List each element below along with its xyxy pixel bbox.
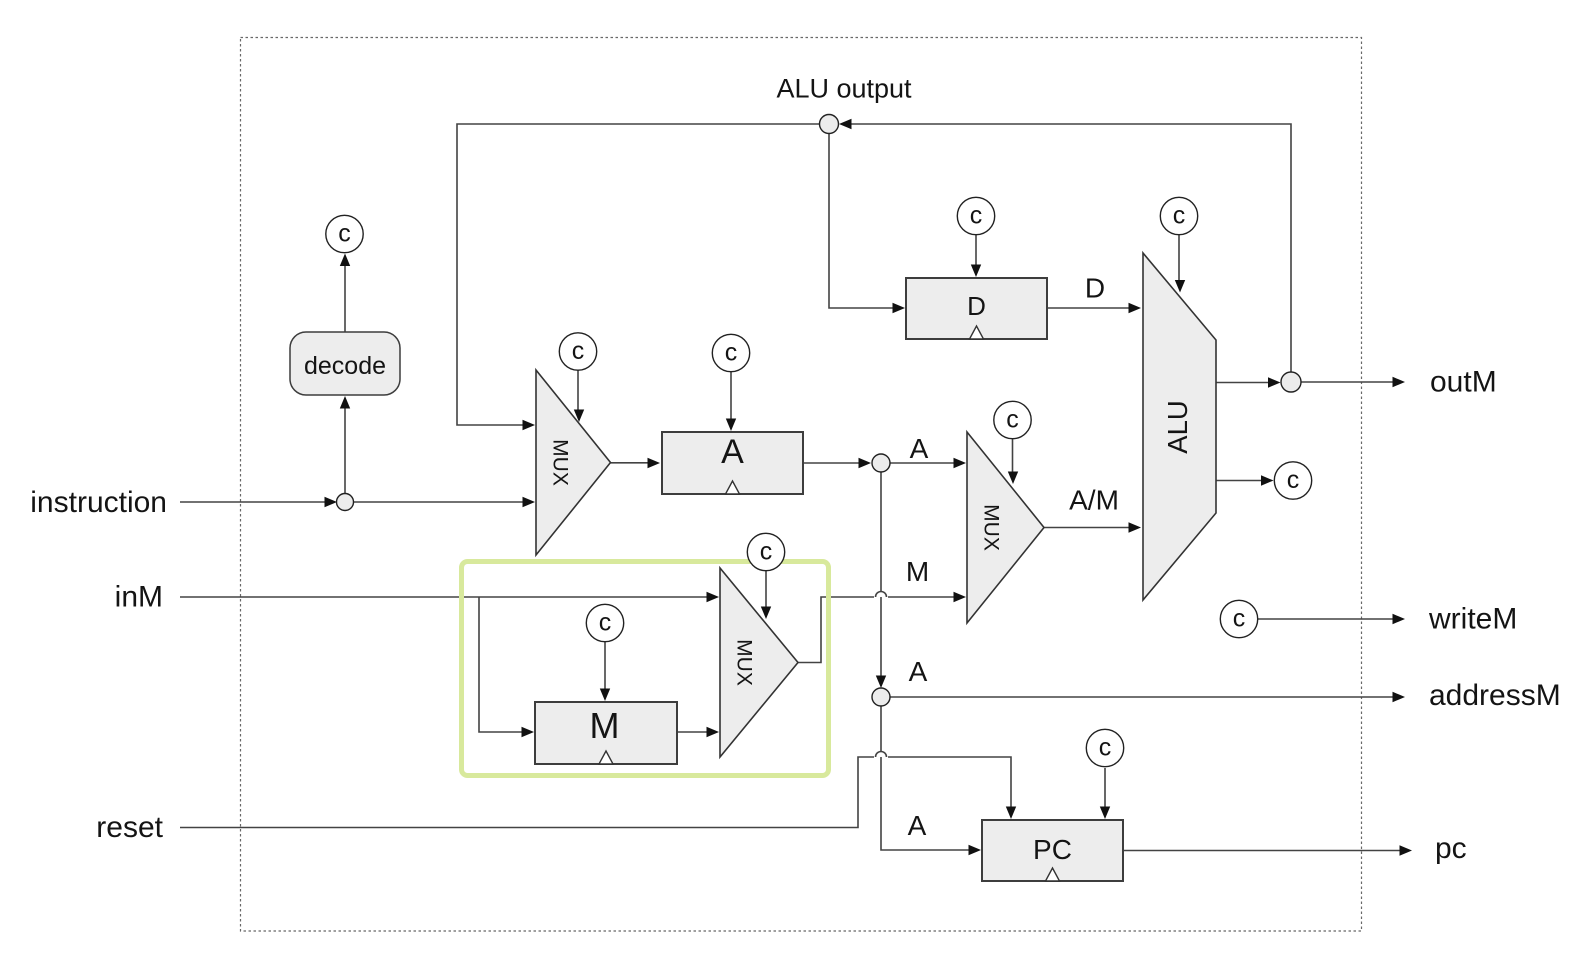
svg-text:c: c: [725, 339, 738, 367]
svg-text:decode: decode: [304, 352, 386, 380]
svg-text:c: c: [1287, 466, 1300, 494]
svg-text:c: c: [1173, 202, 1186, 230]
svg-text:c: c: [1233, 605, 1246, 633]
svg-text:M: M: [906, 556, 929, 587]
svg-text:outM: outM: [1430, 366, 1497, 399]
svg-text:reset: reset: [96, 811, 163, 844]
svg-text:A: A: [721, 433, 744, 471]
svg-text:D: D: [967, 291, 986, 321]
svg-text:MUX: MUX: [549, 439, 572, 486]
svg-text:instruction: instruction: [30, 486, 167, 519]
svg-text:c: c: [572, 337, 585, 365]
svg-text:MUX: MUX: [733, 639, 756, 686]
svg-text:A: A: [908, 810, 927, 841]
svg-text:c: c: [970, 202, 983, 230]
svg-text:A: A: [910, 433, 929, 464]
svg-text:writeM: writeM: [1428, 603, 1517, 636]
svg-text:inM: inM: [115, 581, 163, 614]
svg-text:c: c: [599, 609, 612, 637]
svg-text:addressM: addressM: [1429, 679, 1561, 712]
svg-text:c: c: [1006, 406, 1019, 434]
svg-text:M: M: [590, 705, 620, 746]
svg-text:PC: PC: [1033, 834, 1072, 865]
svg-text:D: D: [1085, 273, 1105, 304]
svg-text:ALU: ALU: [1162, 400, 1193, 454]
svg-text:ALU output: ALU output: [776, 74, 912, 104]
svg-text:c: c: [1099, 734, 1112, 762]
svg-text:MUX: MUX: [980, 504, 1003, 551]
svg-text:A: A: [909, 656, 928, 687]
svg-text:c: c: [760, 538, 773, 566]
svg-text:c: c: [338, 220, 351, 248]
svg-text:pc: pc: [1435, 832, 1467, 865]
svg-text:A/M: A/M: [1069, 485, 1119, 516]
